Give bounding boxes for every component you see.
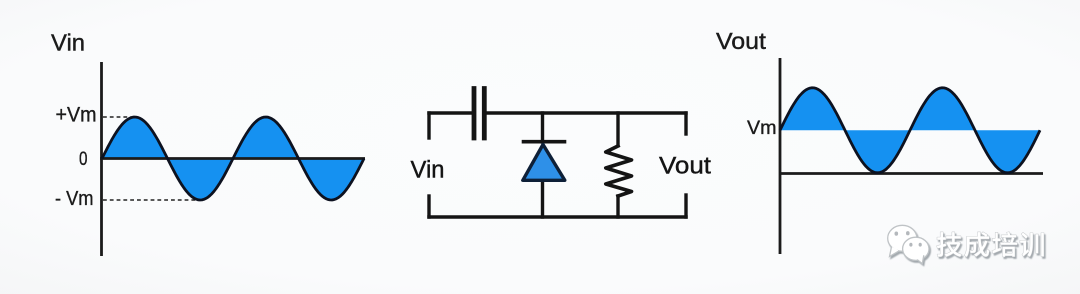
svg-text:Vin: Vin bbox=[51, 30, 85, 56]
svg-text:Vin: Vin bbox=[411, 157, 445, 184]
svg-text:- Vm: - Vm bbox=[55, 188, 94, 210]
svg-text:+Vm: +Vm bbox=[56, 104, 97, 127]
svg-text:Vout: Vout bbox=[716, 28, 766, 54]
svg-text:0: 0 bbox=[79, 148, 88, 170]
svg-text:Vout: Vout bbox=[659, 153, 711, 180]
svg-text:Vm: Vm bbox=[747, 118, 777, 139]
